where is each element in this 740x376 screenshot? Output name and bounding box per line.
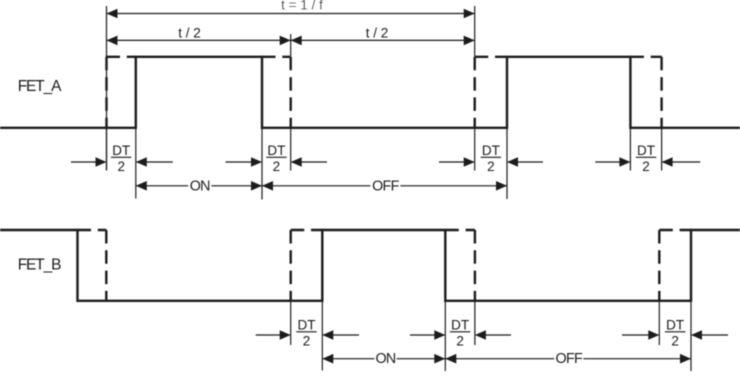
FET_A ext line below x=290.7: [290, 128, 292, 171]
FET_A ideal rising edge 1 (dashed): [105, 57, 107, 128]
svg-text:2: 2: [117, 159, 125, 174]
FET_A DT/2 #4 right arrowhead: [662, 157, 673, 167]
dimension line t/2 first half: [107, 39, 291, 41]
svg-text:2: 2: [303, 333, 311, 348]
FET_A dashed top segment 2: [262, 56, 291, 58]
svg-text:t / 2: t / 2: [178, 26, 201, 41]
arrowhead t=1/f right: [464, 9, 475, 19]
svg-text:OFF: OFF: [372, 178, 399, 194]
svg-text:2: 2: [487, 159, 495, 174]
FET_A DT/2 #3 right arrowhead: [507, 157, 518, 167]
FET_A waveform solid trace: [0, 57, 740, 128]
arrowhead t/2 second left: [291, 36, 302, 46]
arrowhead t/2 first right: [280, 36, 291, 46]
FET_A DT/2 #4 left arrowhead: [619, 157, 630, 167]
FET_A DT/2 #3 left arrow line: [439, 161, 474, 163]
FET_B DT/2 #1 fraction bar: [296, 331, 316, 333]
FET_B ON right arrowhead: [434, 354, 445, 364]
FET_A DT/2 #1 right arrow line: [137, 161, 173, 163]
FET_A ext line below x=474.7: [474, 128, 476, 171]
svg-text:OFF: OFF: [556, 351, 583, 367]
FET_A DT/2 #3 fraction bar: [481, 156, 501, 158]
FET_B DT/2 #1 right arrow line: [323, 334, 359, 336]
FET_B DT/2 #1 left arrow line: [256, 334, 290, 336]
svg-text:DT: DT: [451, 317, 469, 332]
FET_A DT/2 #1 right arrowhead: [136, 157, 147, 167]
svg-text:2: 2: [456, 333, 464, 348]
FET_A ext line below x=106.5: [106, 128, 108, 171]
FET_B waveform solid trace: [0, 230, 740, 301]
FET_A ideal falling edge 1 (dashed): [290, 57, 292, 128]
extension line at x=474.7 (period end): [474, 6, 476, 56]
FET_A DT/2 #2 left arrowhead: [251, 157, 262, 167]
FET_A DT/2 #3 left arrowhead: [464, 157, 475, 167]
FET_B ext line below x=474.9: [474, 301, 476, 345]
svg-text:FET_A: FET_A: [18, 78, 62, 95]
FET_B ext line below x=445.3: [444, 301, 446, 371]
arrowhead t/2 second right: [464, 36, 475, 46]
label t = 1/f background: [276, 0, 328, 11]
FET_A ON right arrowhead: [251, 181, 262, 191]
FET_B dashed top segment 2: [291, 229, 323, 231]
FET_A DT/2 #2 left arrow line: [226, 161, 262, 163]
FET_B ext line below x=290.7: [290, 301, 292, 345]
FET_B ON line left part: [322, 358, 374, 360]
svg-text:DT: DT: [666, 317, 684, 332]
FET_B DT/2 #3 right arrowhead: [691, 330, 702, 340]
FET_B OFF line left part: [445, 358, 554, 360]
FET_A ext line below x=262: [261, 128, 263, 200]
svg-text:t = 1 / f: t = 1 / f: [281, 0, 323, 13]
FET_B DT/2 #3 right arrow line: [692, 334, 728, 336]
svg-text:DT: DT: [637, 143, 655, 158]
svg-text:2: 2: [642, 159, 650, 174]
svg-text:DT: DT: [482, 143, 500, 158]
FET_A ideal falling edge 2 (dashed): [660, 57, 662, 128]
FET_A DT/2 #4 fraction bar: [636, 156, 656, 158]
svg-text:t / 2: t / 2: [366, 26, 389, 41]
FET_A DT/2 #2 right arrow line: [292, 161, 327, 163]
FET_B ON line right part: [397, 358, 446, 360]
FET_A DT/2 #1 left arrow line: [71, 161, 106, 163]
FET_A ext line below x=135.8: [135, 128, 137, 199]
FET_A ext line below x=661.6: [661, 128, 663, 171]
FET_A OFF right arrowhead: [496, 181, 507, 191]
svg-text:DT: DT: [112, 143, 130, 158]
arrowhead t=1/f left: [107, 9, 118, 19]
FET_A ext line below x=507: [506, 128, 508, 199]
extension line at x=290.7 (half period): [290, 34, 292, 56]
FET_A DT/2 #2 right arrowhead: [291, 157, 302, 167]
FET_B ext line below x=691: [690, 301, 692, 371]
FET_A ON line right part: [211, 185, 262, 187]
FET_A dashed top segment 4: [630, 56, 661, 58]
FET_B dashed top segment 3: [445, 229, 475, 231]
FET_A OFF line right part: [400, 185, 507, 187]
FET_B ideal falling edge 1 (dashed): [105, 230, 107, 301]
FET_A DT/2 #4 left arrow line: [595, 161, 629, 163]
FET_B OFF right arrowhead: [680, 354, 691, 364]
svg-text:ON: ON: [375, 351, 395, 367]
FET_A ON left arrowhead: [136, 181, 147, 191]
dimension line t=1/f: [107, 13, 475, 15]
FET_A DT/2 #3 right arrow line: [508, 161, 543, 163]
FET_A ON line left part: [136, 185, 188, 187]
FET_A dashed top segment 3: [475, 56, 507, 58]
FET_B OFF line right part: [583, 358, 691, 360]
FET_A ext line below x=630.4: [629, 128, 631, 171]
extension line at x=106.5 (period start, continuous): [106, 6, 108, 171]
FET_B DT/2 #2 right arrowhead: [475, 330, 486, 340]
FET_A DT/2 #4 right arrow line: [663, 161, 701, 163]
FET_A dashed top segment 1: [107, 56, 136, 58]
FET_B DT/2 #3 left arrow line: [622, 334, 658, 336]
FET_B DT/2 #2 right arrow line: [476, 334, 511, 336]
FET_B DT/2 #2 left arrow line: [410, 334, 444, 336]
FET_B ON left arrowhead: [322, 354, 333, 364]
svg-text:2: 2: [671, 333, 679, 348]
svg-text:ON: ON: [190, 178, 210, 194]
FET_A DT/2 #1 left arrowhead: [96, 157, 107, 167]
FET_B DT/2 #3 left arrowhead: [648, 330, 659, 340]
arrowhead t/2 first left: [107, 36, 118, 46]
FET_A DT/2 #2 fraction bar: [266, 156, 286, 158]
FET_A OFF left arrowhead: [262, 181, 273, 191]
FET_B dashed top segment 4: [659, 229, 691, 231]
FET_A OFF line left part: [262, 185, 370, 187]
FET_B DT/2 #2 left arrowhead: [434, 330, 445, 340]
svg-text:DT: DT: [298, 317, 316, 332]
FET_A DT/2 #1 fraction bar: [111, 156, 131, 158]
FET_B ideal rising edge 1 (dashed): [290, 230, 292, 301]
FET_A ideal rising edge 2 (dashed): [474, 57, 476, 128]
FET_B dashed top segment 1: [78, 229, 107, 231]
svg-text:2: 2: [273, 159, 281, 174]
FET_B DT/2 #3 fraction bar: [665, 331, 686, 333]
FET_B OFF left arrowhead: [445, 354, 456, 364]
FET_B ideal rising edge 2 (dashed): [658, 230, 660, 301]
dimension line t/2 second half: [291, 39, 475, 41]
FET_B ext line below x=322.3: [321, 301, 323, 371]
FET_B DT/2 #1 right arrowhead: [322, 330, 333, 340]
FET_B ext line below x=659.3: [658, 301, 660, 345]
svg-text:FET_B: FET_B: [18, 256, 61, 273]
svg-text:DT: DT: [267, 143, 285, 158]
FET_B ideal falling edge 2 (dashed): [474, 230, 476, 301]
FET_B DT/2 #1 left arrowhead: [280, 330, 291, 340]
FET_B DT/2 #2 fraction bar: [450, 331, 470, 333]
